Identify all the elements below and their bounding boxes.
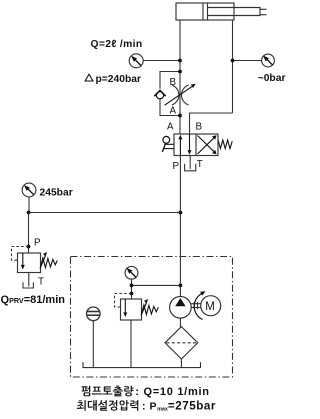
- svg-text:: Q=10 1/min: : Q=10 1/min: [135, 386, 209, 398]
- valve V1 body: [174, 134, 218, 156]
- svg-text:A: A: [167, 122, 174, 133]
- svg-text:p=240bar: p=240bar: [96, 74, 142, 85]
- wire: T to tank: [189, 156, 191, 170]
- pump P1: [170, 297, 192, 319]
- caption line 1: pump flow: [82, 386, 134, 397]
- wire: PRV to tank: [28, 273, 30, 287]
- svg-text:M: M: [205, 301, 215, 313]
- svg-text:~0bar: ~0bar: [258, 73, 286, 84]
- RV internal arrow: [124, 299, 126, 315]
- wire: B line from valve to rod-end line: [190, 113, 233, 134]
- node: left branch junction: [179, 211, 183, 215]
- relief valve PRV body: [18, 253, 41, 273]
- RV spring + adjust arrow: [142, 305, 159, 315]
- wire: pump suction: [179, 318, 181, 327]
- gauge G2 (~0bar): [262, 54, 275, 67]
- filter F1: [165, 327, 198, 359]
- wire: main pressure line P: [179, 156, 181, 297]
- throttle (variable orifice): [172, 85, 179, 105]
- wire: gauge4 down to RV: [131, 279, 133, 299]
- valve V1 left position arrows: [180, 134, 189, 156]
- svg-text:245bar: 245bar: [40, 187, 73, 198]
- wire: gauge3 drop: [28, 197, 30, 213]
- tank (valve T): [185, 164, 196, 171]
- wire: rod-end line down from cylinder: [232, 20, 234, 113]
- throttle adjust arrow: [165, 86, 193, 105]
- svg-text:: Pmax=275bar: : Pmax=275bar: [142, 400, 216, 413]
- svg-text:P: P: [34, 238, 41, 249]
- wire: RV branch to pump line: [132, 284, 181, 286]
- svg-text:B: B: [170, 77, 177, 88]
- check valve (ball + seat): [156, 92, 163, 99]
- wire: gauge1 stub: [143, 60, 180, 62]
- reservoir tank: [83, 362, 201, 367]
- gauge G4 (pump gauge): [125, 266, 138, 279]
- svg-text:T: T: [197, 159, 203, 170]
- svg-text:B: B: [196, 122, 203, 133]
- coupling: [191, 302, 201, 309]
- motor M1: [201, 296, 221, 316]
- valve V1 spring: [218, 140, 232, 149]
- node: PRV P port: [27, 245, 31, 249]
- wire: filter to tank: [180, 359, 182, 368]
- wire: left branch horizontal: [29, 212, 181, 214]
- node: gauge2 junction: [231, 59, 235, 63]
- PRV pilot dashed line: [12, 247, 29, 261]
- svg-text:QPRV=81/min: QPRV=81/min: [1, 294, 66, 306]
- relief valve RV body: [121, 299, 142, 320]
- node: loop bottom: [178, 114, 182, 118]
- cylinder: [176, 3, 267, 20]
- filler breather: [87, 307, 101, 321]
- flow control valve bypass loop: [160, 72, 180, 116]
- node: loop top: [178, 70, 182, 74]
- PRV spring + adjust arrow: [41, 258, 58, 268]
- svg-text:Q=2ℓ /min: Q=2ℓ /min: [91, 39, 143, 50]
- PRV internal arrow: [22, 253, 24, 267]
- tank (PRV): [23, 282, 33, 288]
- wire: cap-end line down from cylinder: [179, 20, 181, 134]
- valve V1 lever actuator: [163, 136, 170, 143]
- valve V1 right position crossed arrows: [198, 136, 216, 155]
- caption line 2: max pressure: [77, 400, 138, 411]
- rotation arrow: [194, 294, 202, 320]
- node: RV pilot junction: [130, 292, 134, 296]
- node: gauge3 junction: [27, 211, 31, 215]
- wire: gauge2 stub: [233, 60, 262, 62]
- svg-text:A: A: [170, 106, 177, 117]
- node: pump junction: [179, 284, 183, 288]
- svg-text:P: P: [173, 161, 180, 172]
- RV pilot dashed line: [115, 294, 132, 308]
- wire: breather stem: [92, 321, 94, 368]
- wire: down to PRV: [28, 213, 30, 254]
- svg-text:T: T: [38, 277, 44, 288]
- gauge G3 (245bar): [22, 183, 36, 197]
- node: gauge1 junction: [178, 59, 182, 63]
- power unit enclosure (dash-dot): [71, 257, 233, 378]
- label dp=240bar: [85, 74, 93, 81]
- gauge G1 (Q=2 l/min): [129, 54, 143, 68]
- node: RV branch junction: [130, 284, 134, 288]
- wire: RV drain to tank: [130, 320, 132, 368]
